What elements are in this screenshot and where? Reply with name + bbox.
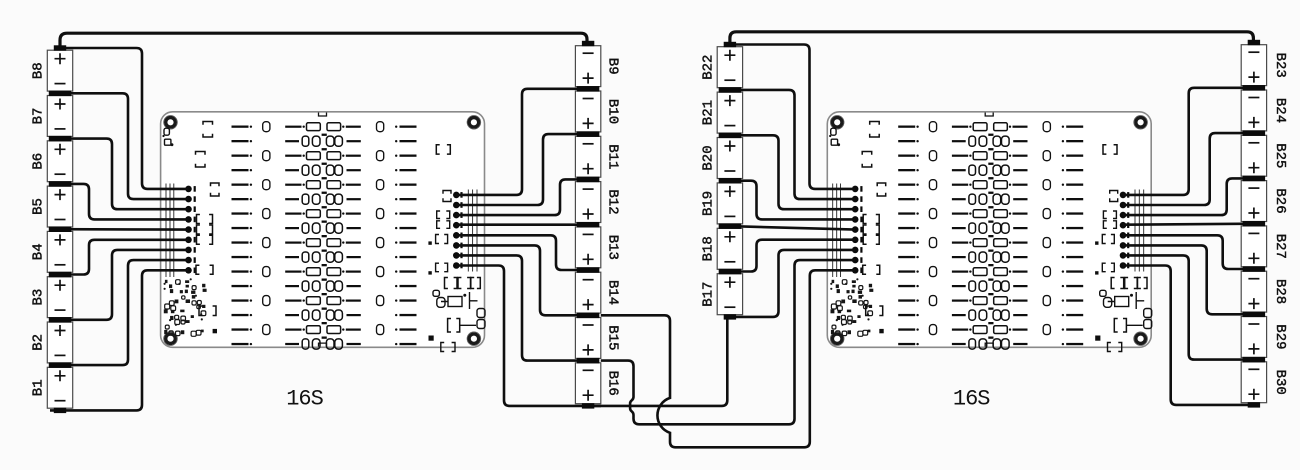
- terminal bar node battery column B8..B1 j4: [49, 227, 71, 233]
- wire balance lead PCB2 right pin 8 to M8 (B30+): [1123, 266, 1258, 405]
- terminal bar node battery column B9..B16 j6: [577, 313, 599, 319]
- svg-text:B22: B22: [701, 55, 717, 80]
- terminal bar node battery column B23..B30 j0: [1248, 40, 1260, 45]
- wire long lead K6 (B14-B15 node) to PCB2 pin9row: [601, 270, 855, 447]
- svg-text:B20: B20: [701, 145, 717, 170]
- terminal bar node battery column B22..B17 j5: [719, 269, 741, 275]
- terminal bar node battery column B23..B30 j7: [1243, 357, 1265, 363]
- terminal bar node battery column B9..B16 j7: [577, 358, 599, 364]
- PCB balancer board U1 (16S): [161, 112, 485, 412]
- wire long lead K7 (B15-B16 node) to PCB2 pin8row: [601, 260, 855, 424]
- svg-text:B23: B23: [1272, 53, 1288, 78]
- screw hole 4: [469, 334, 479, 344]
- battery cell B24: [1241, 90, 1288, 131]
- terminal bar node battery column B22..B17 j6: [724, 314, 736, 319]
- resistor dash column A: [232, 126, 253, 346]
- battery cell B11: [575, 136, 620, 177]
- capacitor 0-column A: [263, 122, 270, 335]
- battery cell B29: [1241, 317, 1288, 358]
- battery cell B8: [31, 50, 73, 91]
- wire balance lead right pin 3 to K3: [456, 179, 590, 215]
- svg-text:B28: B28: [1272, 279, 1288, 304]
- svg-text:B2: B2: [31, 334, 47, 351]
- battery column B9..B16: [575, 41, 620, 409]
- wire balance lead right pin 6 to K6: [456, 245, 590, 315]
- bottom-left dense component cluster: [164, 278, 218, 336]
- svg-text:B18: B18: [701, 236, 717, 261]
- battery column B22..B17: [701, 42, 743, 320]
- battery cell B2: [31, 322, 73, 363]
- wire balance lead PCB2 right pin 1 to M1: [1123, 88, 1255, 195]
- terminal bar node battery column B8..B1 j8: [54, 408, 66, 413]
- wire balance lead L2 to PCB2 left pin 3: [728, 135, 855, 209]
- wire bus B22+ to B23- (top): [730, 32, 1254, 45]
- terminal bar node battery column B9..B16 j1: [577, 86, 599, 92]
- wire balance lead J5 to left pin 6: [58, 240, 189, 275]
- wire balance lead J7 to left pin 8: [58, 260, 189, 365]
- terminal bar node battery column B23..B30 j5: [1243, 266, 1265, 272]
- resistor dash column B: [395, 126, 417, 346]
- silkscreen detail top-left: [162, 128, 173, 146]
- svg-text:B21: B21: [701, 100, 717, 125]
- wire balance lead J3 to left pin 4: [58, 184, 189, 220]
- battery cell B15: [575, 318, 620, 359]
- terminal bar node battery column B8..B1 j6: [49, 317, 71, 323]
- wire balance lead PCB2 right pin 7 to M7: [1123, 255, 1255, 359]
- terminal bar node battery column B23..B30 j3: [1243, 176, 1265, 182]
- wire balance lead L5 to PCB2 left pin 6: [728, 240, 855, 272]
- wire balance lead PCB2 right pin 5 to M5: [1123, 235, 1255, 269]
- battery cell B18: [701, 228, 743, 269]
- terminal bar node battery column B9..B16 j8: [582, 403, 594, 408]
- wire balance lead L1 to PCB2 left pin 2: [728, 90, 855, 199]
- wire balance lead J2 to left pin 3: [58, 139, 189, 210]
- wire balance lead B17- node to PCB2 left pin 7: [728, 250, 855, 317]
- svg-text:B26: B26: [1272, 188, 1288, 213]
- battery cell B12: [575, 182, 620, 223]
- wire balance lead right pin 7 to K7: [456, 255, 590, 360]
- svg-text:B1: B1: [31, 379, 47, 396]
- svg-text:B24: B24: [1272, 98, 1288, 123]
- terminal bar node battery column B8..B1 j1: [49, 91, 71, 97]
- terminal bar node battery column B8..B1 j3: [49, 181, 71, 187]
- battery cell B6: [31, 141, 73, 182]
- wire balance lead PCB2 right pin 3 to M3: [1123, 178, 1255, 215]
- battery cell B14: [575, 272, 620, 313]
- svg-text:B25: B25: [1272, 143, 1288, 168]
- battery cell B5: [31, 186, 73, 227]
- battery cell B3: [31, 277, 73, 318]
- PCB board outline: [161, 112, 485, 347]
- terminal bar node battery column B22..B17 j1: [719, 87, 741, 93]
- component outlines right margin: [428, 145, 451, 275]
- wire balance lead right pin 8 to K8 (B16+): [456, 266, 601, 406]
- svg-text:B8: B8: [31, 62, 47, 79]
- svg-text:B11: B11: [605, 144, 621, 169]
- svg-text:B12: B12: [605, 189, 621, 214]
- battery cell B23: [1241, 45, 1288, 86]
- wire balance lead right pin 2 to K2: [456, 134, 590, 205]
- wire balance lead J4 to left pin 5: [58, 228, 189, 231]
- svg-text:B17: B17: [701, 282, 717, 307]
- svg-text:16S: 16S: [286, 387, 323, 412]
- terminal bar node battery column B9..B16 j4: [577, 222, 599, 228]
- battery cell B27: [1241, 226, 1288, 267]
- battery cell B28: [1241, 271, 1288, 312]
- right pin header J-right (8 pins): [453, 192, 463, 269]
- terminal bar node battery column B9..B16 j5: [577, 267, 599, 273]
- terminal bar node battery column B23..B30 j2: [1243, 130, 1265, 136]
- wire balance lead J6 to left pin 7: [58, 250, 189, 320]
- terminal bar node battery column B8..B1 j0: [54, 45, 66, 50]
- svg-text:B4: B4: [31, 243, 47, 260]
- capacitor 0-column B: [377, 122, 384, 335]
- wire balance lead PCB2 right pin 6 to M6: [1123, 245, 1255, 314]
- svg-text:B6: B6: [31, 153, 47, 170]
- svg-text:B13: B13: [605, 235, 621, 260]
- terminal bar node battery column B9..B16 j0: [582, 41, 594, 46]
- svg-text:B16: B16: [605, 371, 621, 396]
- wire balance lead PCB2 right pin 2 to M2: [1123, 133, 1255, 205]
- battery cell B19: [701, 183, 743, 224]
- terminal bar node battery column B8..B1 j2: [49, 136, 71, 142]
- screw hole 2: [469, 118, 479, 128]
- wire balance lead J1 to left pin 2: [58, 93, 189, 199]
- battery cell B20: [701, 138, 743, 179]
- center balance-resistor ladder: [285, 123, 361, 349]
- battery cell B17: [701, 274, 743, 315]
- svg-text:B5: B5: [31, 198, 47, 215]
- battery cell B22: [701, 47, 743, 88]
- battery cell B1: [31, 367, 73, 408]
- wire balance lead L0 to PCB2 left pin 1: [728, 45, 855, 189]
- terminal bar node battery column B9..B16 j2: [577, 131, 599, 137]
- terminal bar node battery column B23..B30 j6: [1243, 312, 1265, 318]
- battery cell B13: [575, 227, 620, 268]
- svg-text:B14: B14: [605, 280, 621, 305]
- terminal bar node battery column B8..B1 j7: [49, 362, 71, 368]
- wire bus B8+ to B9- (top): [60, 33, 587, 48]
- svg-text:B15: B15: [605, 325, 621, 350]
- battery cell B26: [1241, 181, 1288, 222]
- terminal bar node battery column B22..B17 j3: [719, 178, 741, 184]
- battery cell B21: [701, 92, 743, 133]
- wire balance lead J0 to left pin 1: [58, 48, 189, 189]
- battery column B8..B1: [31, 45, 73, 413]
- svg-text:B3: B3: [31, 289, 47, 306]
- terminal bar node battery column B23..B30 j4: [1243, 221, 1265, 227]
- battery column B23..B30: [1241, 40, 1288, 408]
- battery cell B30: [1241, 362, 1288, 403]
- wire balance lead right pin 4 to K4: [456, 223, 590, 226]
- svg-text:B9: B9: [605, 58, 621, 75]
- wire balance lead right pin 1 to K1: [456, 89, 590, 195]
- wire balance lead L3 to PCB2 left pin 4: [728, 181, 855, 220]
- svg-text:B30: B30: [1272, 370, 1288, 395]
- battery cell B7: [31, 96, 73, 137]
- battery cell B25: [1241, 135, 1288, 176]
- battery cell B4: [31, 231, 73, 272]
- terminal bar node battery column B8..B1 j5: [49, 272, 71, 278]
- edge fiducial marks: [319, 113, 327, 117]
- pin header traces left: [166, 184, 477, 278]
- terminal bar node battery column B23..B30 j1: [1243, 85, 1265, 91]
- battery cell B10: [575, 91, 620, 132]
- svg-text:B7: B7: [31, 108, 47, 125]
- svg-text:B29: B29: [1272, 324, 1288, 349]
- terminal bar node battery column B22..B17 j4: [719, 223, 741, 229]
- screw hole 3: [166, 334, 176, 344]
- wire balance lead right pin 5 to K5: [456, 235, 590, 270]
- bottom-right component assembly: [429, 278, 486, 352]
- wire series link B16+ to B17-: [588, 317, 727, 406]
- wire balance lead PCB2 right pin 4 to M4: [1123, 224, 1255, 225]
- terminal bar node battery column B23..B30 j8: [1248, 402, 1260, 407]
- terminal bar node battery column B9..B16 j3: [577, 177, 599, 183]
- screw hole 1: [166, 118, 176, 128]
- wire balance lead J8 to left pin 9: [50, 270, 189, 410]
- svg-text:B27: B27: [1272, 234, 1288, 259]
- PCB balancer board U2 (16S): [827, 112, 1151, 412]
- terminal bar node battery column B22..B17 j0: [724, 42, 736, 47]
- battery cell B16: [575, 363, 620, 404]
- terminal bar node battery column B22..B17 j2: [719, 133, 741, 139]
- left pin header J-left (9 pins): [185, 186, 196, 274]
- svg-text:B19: B19: [701, 191, 717, 216]
- svg-text:B10: B10: [605, 99, 621, 124]
- battery cell B9: [575, 46, 620, 87]
- wire balance lead L4 to PCB2 left pin 5: [728, 226, 855, 230]
- component outlines left margin: [196, 122, 220, 275]
